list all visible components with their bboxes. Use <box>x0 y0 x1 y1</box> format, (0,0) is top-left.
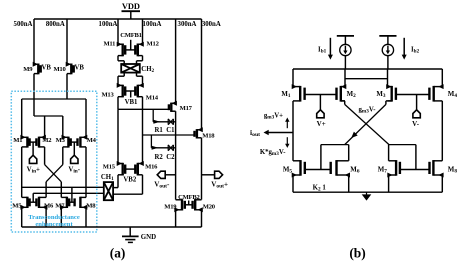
svg-text:M7: M7 <box>55 202 65 209</box>
svg-text:M3: M3 <box>376 91 386 99</box>
svg-text:V+: V+ <box>317 120 326 128</box>
svg-text:C1: C1 <box>166 127 175 134</box>
svg-text:M10: M10 <box>53 66 66 73</box>
svg-text:M3: M3 <box>56 137 66 144</box>
svg-text:VB1: VB1 <box>125 99 138 106</box>
svg-text:R1: R1 <box>154 127 163 134</box>
svg-text:300nA: 300nA <box>178 21 197 28</box>
svg-text:M8: M8 <box>86 202 96 209</box>
svg-text:100nA: 100nA <box>143 21 162 28</box>
svg-text:Ib1: Ib1 <box>318 47 327 55</box>
svg-text:gm3V+: gm3V+ <box>264 112 283 120</box>
svg-text:Vin+: Vin+ <box>27 166 40 174</box>
svg-text:CH1: CH1 <box>101 174 114 182</box>
svg-text:M16: M16 <box>145 164 158 171</box>
svg-text:M7: M7 <box>378 167 388 175</box>
svg-text:M5: M5 <box>12 202 22 209</box>
svg-text:M20: M20 <box>203 203 216 210</box>
svg-text:M17: M17 <box>180 105 193 112</box>
svg-text:500nA: 500nA <box>14 21 33 28</box>
svg-text:Transconductance: Transconductance <box>28 214 80 221</box>
svg-text:Ib2: Ib2 <box>411 47 420 55</box>
svg-text:K*gm3V-: K*gm3V- <box>260 149 286 157</box>
svg-text:M6: M6 <box>350 167 360 175</box>
svg-text:M2: M2 <box>347 91 357 99</box>
svg-text:M4: M4 <box>87 137 97 144</box>
svg-text:M13: M13 <box>101 92 114 99</box>
svg-text:CH2: CH2 <box>141 66 154 74</box>
svg-text:VB: VB <box>74 65 84 72</box>
svg-text:M4: M4 <box>448 91 458 99</box>
svg-text:M14: M14 <box>146 95 159 102</box>
svg-text:VB: VB <box>41 65 51 72</box>
svg-text:M1: M1 <box>13 137 22 144</box>
svg-text:V-: V- <box>412 120 420 128</box>
svg-text:M2: M2 <box>42 137 52 144</box>
svg-text:(a): (a) <box>110 245 126 260</box>
svg-text:K2 1: K2 1 <box>313 184 327 192</box>
svg-text:100nA: 100nA <box>99 21 118 28</box>
svg-text:M15: M15 <box>103 164 116 171</box>
svg-text:Vin-: Vin- <box>68 166 80 174</box>
svg-text:gm3V-: gm3V- <box>359 106 377 114</box>
svg-text:M12: M12 <box>147 40 160 47</box>
svg-text:M1: M1 <box>281 91 291 99</box>
svg-text:C2: C2 <box>166 154 175 161</box>
svg-text:VDD: VDD <box>122 2 140 11</box>
svg-text:CMFB1: CMFB1 <box>120 32 141 39</box>
svg-text:M11: M11 <box>103 40 115 47</box>
svg-text:R2: R2 <box>154 154 163 161</box>
svg-text:GND: GND <box>141 234 156 241</box>
svg-text:300nA: 300nA <box>202 21 221 28</box>
svg-text:M5: M5 <box>283 167 293 175</box>
svg-text:M9: M9 <box>23 66 33 73</box>
svg-text:M8: M8 <box>448 167 458 175</box>
svg-text:M18: M18 <box>202 132 215 139</box>
svg-text:(b): (b) <box>349 245 365 260</box>
svg-text:M19: M19 <box>164 203 177 210</box>
svg-text:800nA: 800nA <box>46 21 65 28</box>
svg-text:VB2: VB2 <box>123 177 136 184</box>
